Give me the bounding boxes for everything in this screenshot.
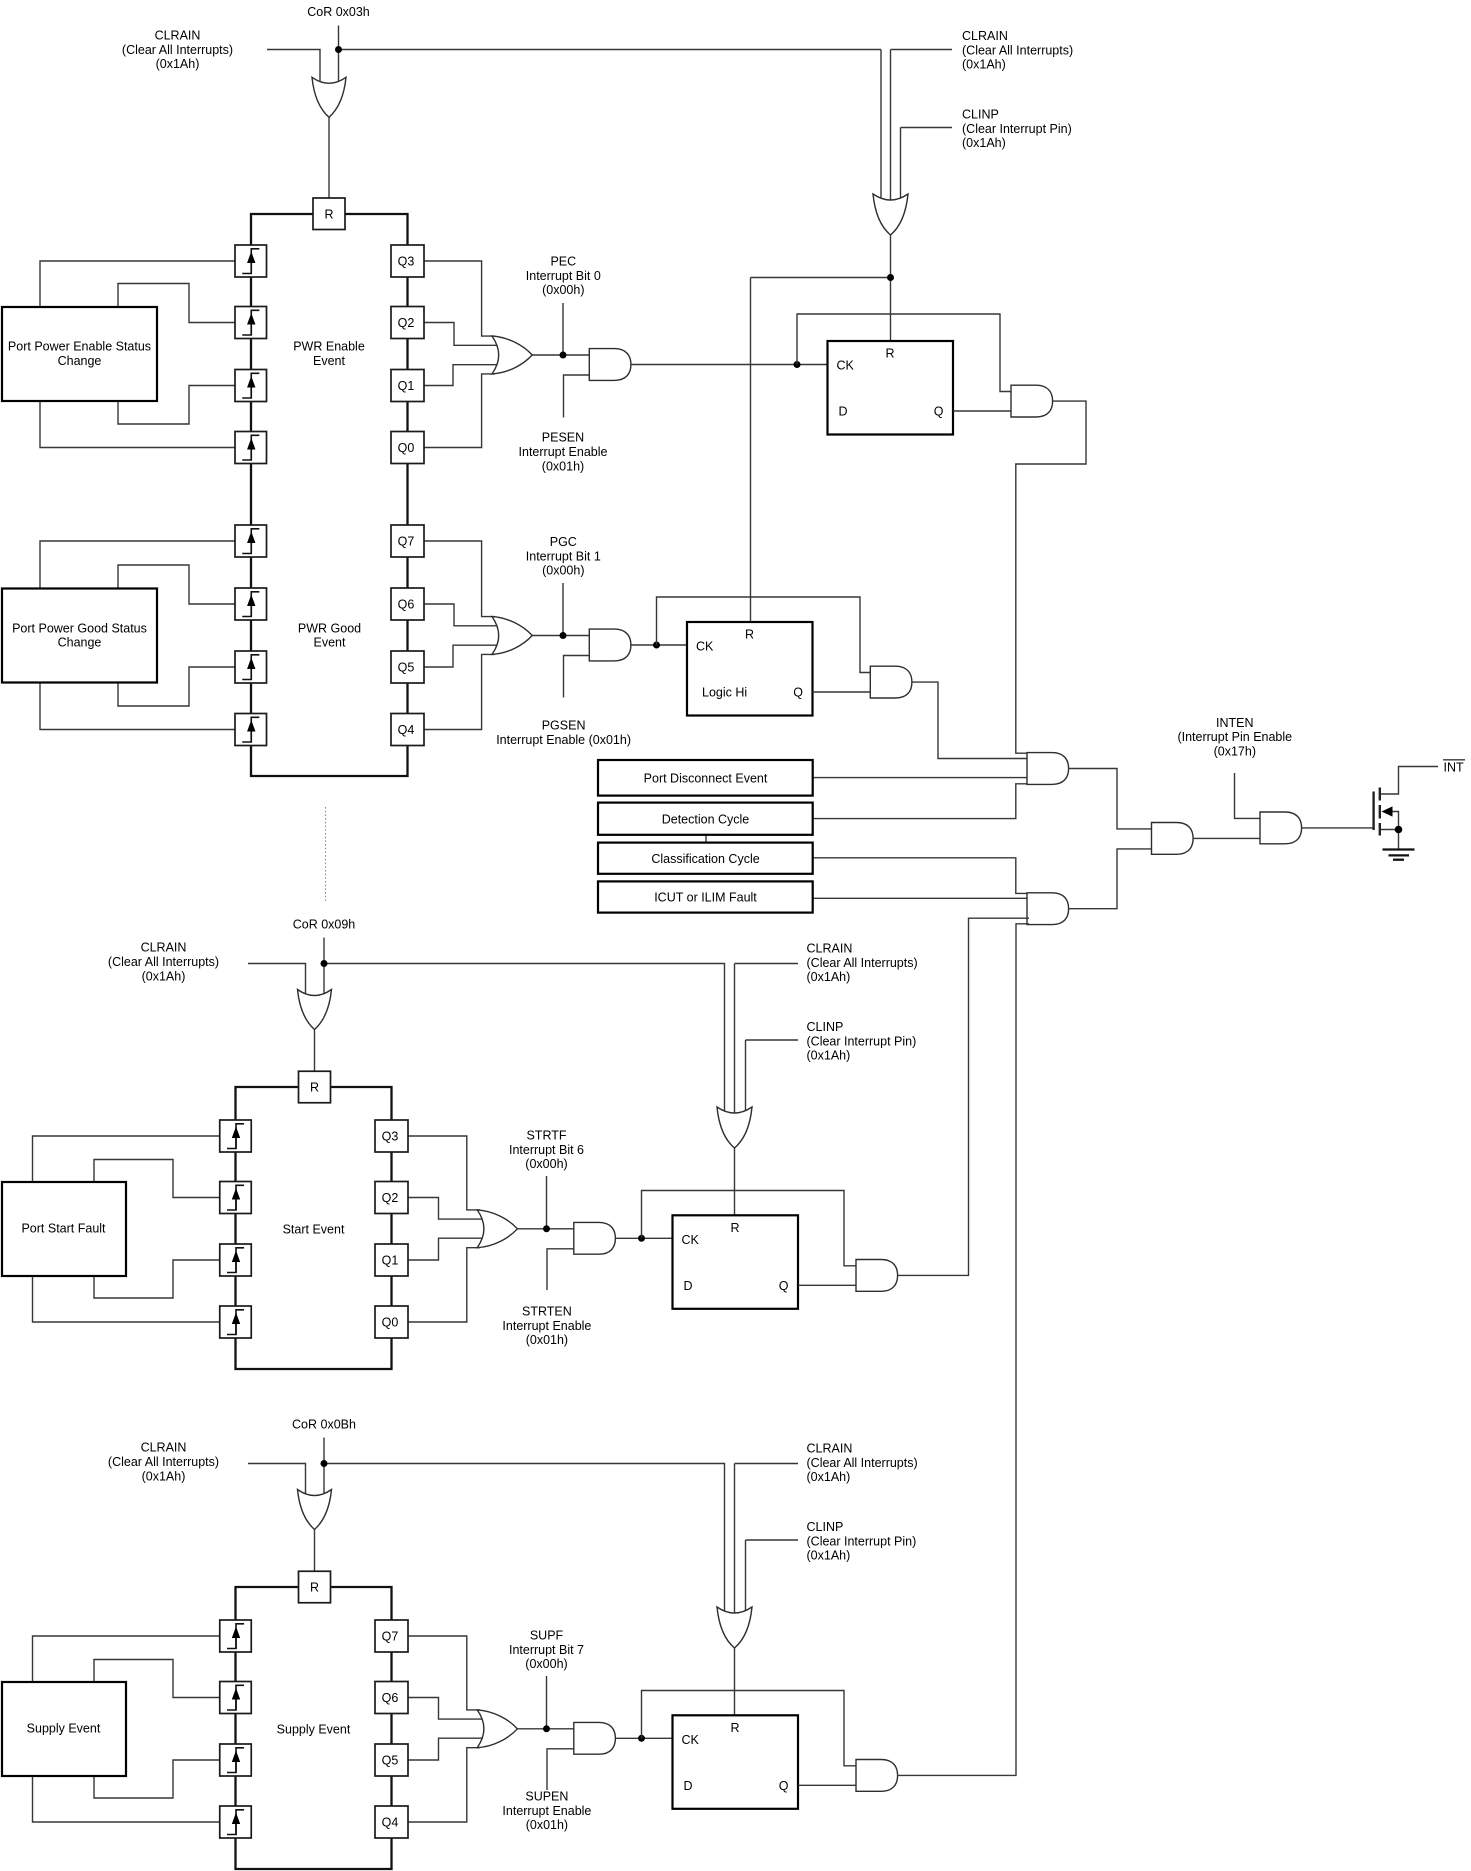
svg-text:CoR 0x0Bh: CoR 0x0Bh — [292, 1418, 356, 1432]
svg-text:Interrupt Enable: Interrupt Enable — [502, 1804, 591, 1818]
svg-text:Q0: Q0 — [398, 441, 415, 455]
svg-text:(Clear Interrupt Pin): (Clear Interrupt Pin) — [962, 122, 1072, 136]
svg-text:Q7: Q7 — [398, 535, 415, 549]
svg-text:PESEN: PESEN — [542, 431, 584, 445]
svg-text:CLRAIN: CLRAIN — [962, 29, 1008, 43]
svg-text:Interrupt Bit 1: Interrupt Bit 1 — [526, 549, 601, 563]
svg-text:PGC: PGC — [550, 535, 577, 549]
svg-text:R: R — [310, 1081, 319, 1095]
svg-text:Q1: Q1 — [382, 1254, 399, 1268]
svg-text:Q2: Q2 — [398, 316, 415, 330]
svg-text:Q2: Q2 — [382, 1191, 399, 1205]
svg-text:CK: CK — [682, 1733, 700, 1747]
svg-text:(0x1Ah): (0x1Ah) — [962, 58, 1006, 72]
svg-text:(0x01h): (0x01h) — [526, 1818, 568, 1832]
svg-text:CK: CK — [837, 359, 855, 373]
svg-text:Event: Event — [313, 354, 345, 368]
svg-text:PWR Enable: PWR Enable — [293, 340, 365, 354]
svg-text:PEC: PEC — [550, 255, 576, 269]
svg-text:Port Power Enable Status: Port Power Enable Status — [8, 340, 151, 354]
svg-text:(0x1Ah): (0x1Ah) — [962, 136, 1006, 150]
svg-text:Supply Event: Supply Event — [27, 1722, 101, 1736]
svg-text:(Interrupt Pin Enable: (Interrupt Pin Enable — [1177, 730, 1292, 744]
svg-text:Interrupt Enable (0x01h): Interrupt Enable (0x01h) — [496, 733, 631, 747]
svg-text:Q3: Q3 — [398, 255, 415, 269]
svg-text:R: R — [310, 1581, 319, 1595]
svg-text:(Clear All Interrupts): (Clear All Interrupts) — [122, 43, 233, 57]
svg-text:D: D — [684, 1779, 693, 1793]
svg-text:Interrupt Enable: Interrupt Enable — [519, 445, 608, 459]
svg-text:CLRAIN: CLRAIN — [155, 29, 201, 43]
svg-text:(0x1Ah): (0x1Ah) — [807, 1549, 851, 1563]
svg-text:CoR 0x09h: CoR 0x09h — [293, 918, 356, 932]
svg-text:(Clear All Interrupts): (Clear All Interrupts) — [962, 43, 1073, 57]
svg-text:CLRAIN: CLRAIN — [141, 1441, 187, 1455]
svg-text:CLINP: CLINP — [807, 1020, 844, 1034]
svg-text:Q6: Q6 — [382, 1691, 399, 1705]
svg-text:(0x00h): (0x00h) — [525, 1157, 567, 1171]
svg-text:(0x01h): (0x01h) — [526, 1333, 568, 1347]
svg-text:(Clear All Interrupts): (Clear All Interrupts) — [807, 956, 918, 970]
svg-text:(Clear All Interrupts): (Clear All Interrupts) — [108, 1455, 219, 1469]
svg-text:CK: CK — [682, 1233, 700, 1247]
svg-text:Q7: Q7 — [382, 1630, 399, 1644]
svg-text:Port Disconnect Event: Port Disconnect Event — [644, 771, 768, 785]
svg-text:SUPEN: SUPEN — [525, 1790, 568, 1804]
svg-text:CLRAIN: CLRAIN — [141, 941, 187, 955]
svg-text:(0x1Ah): (0x1Ah) — [807, 970, 851, 984]
svg-text:STRTEN: STRTEN — [522, 1305, 572, 1319]
svg-text:(Clear Interrupt Pin): (Clear Interrupt Pin) — [807, 1034, 917, 1048]
svg-text:Q3: Q3 — [382, 1130, 399, 1144]
svg-text:INTEN: INTEN — [1216, 716, 1254, 730]
svg-text:(0x1Ah): (0x1Ah) — [142, 1469, 186, 1483]
svg-text:Change: Change — [58, 354, 102, 368]
svg-text:CLINP: CLINP — [962, 108, 999, 122]
svg-text:Port Start Fault: Port Start Fault — [21, 1222, 106, 1236]
svg-text:Q: Q — [934, 405, 944, 419]
svg-text:R: R — [730, 1221, 739, 1235]
svg-text:CLRAIN: CLRAIN — [807, 942, 853, 956]
svg-text:SUPF: SUPF — [530, 1629, 564, 1643]
svg-text:R: R — [885, 347, 894, 361]
svg-text:Classification Cycle: Classification Cycle — [651, 852, 759, 866]
svg-text:CLINP: CLINP — [807, 1520, 844, 1534]
svg-text:(0x00h): (0x00h) — [542, 564, 584, 578]
svg-text:Interrupt Bit 0: Interrupt Bit 0 — [526, 269, 601, 283]
svg-text:Interrupt Bit 6: Interrupt Bit 6 — [509, 1143, 584, 1157]
svg-text:Q: Q — [779, 1279, 789, 1293]
svg-text:Q6: Q6 — [398, 598, 415, 612]
svg-text:Q: Q — [779, 1779, 789, 1793]
svg-text:INT: INT — [1444, 761, 1465, 775]
svg-text:PGSEN: PGSEN — [542, 719, 586, 733]
svg-text:Change: Change — [58, 636, 102, 650]
svg-text:Q1: Q1 — [398, 379, 415, 393]
svg-text:STRTF: STRTF — [526, 1129, 566, 1143]
svg-text:Supply Event: Supply Event — [277, 1722, 351, 1736]
svg-text:(0x1Ah): (0x1Ah) — [807, 1470, 851, 1484]
svg-text:Logic Hi: Logic Hi — [702, 686, 747, 700]
svg-text:Interrupt Enable: Interrupt Enable — [502, 1319, 591, 1333]
svg-text:(0x00h): (0x00h) — [542, 283, 584, 297]
svg-text:(0x1Ah): (0x1Ah) — [142, 969, 186, 983]
svg-text:(Clear All Interrupts): (Clear All Interrupts) — [807, 1456, 918, 1470]
svg-text:CLRAIN: CLRAIN — [807, 1442, 853, 1456]
svg-text:Q4: Q4 — [382, 1816, 399, 1830]
svg-text:Q4: Q4 — [398, 723, 415, 737]
svg-text:(0x01h): (0x01h) — [542, 459, 584, 473]
svg-text:Q0: Q0 — [382, 1316, 399, 1330]
svg-text:Q: Q — [793, 686, 803, 700]
svg-text:Start Event: Start Event — [283, 1222, 345, 1236]
svg-text:(0x00h): (0x00h) — [525, 1657, 567, 1671]
svg-text:CK: CK — [696, 640, 714, 654]
svg-text:CoR 0x03h: CoR 0x03h — [307, 5, 370, 19]
svg-text:Interrupt Bit 7: Interrupt Bit 7 — [509, 1643, 584, 1657]
svg-text:R: R — [730, 1721, 739, 1735]
svg-text:Q5: Q5 — [398, 661, 415, 675]
svg-text:ICUT or ILIM Fault: ICUT or ILIM Fault — [654, 891, 757, 905]
svg-text:(0x17h): (0x17h) — [1214, 745, 1256, 759]
svg-text:Event: Event — [314, 636, 346, 650]
svg-text:PWR Good: PWR Good — [298, 621, 361, 635]
svg-text:D: D — [839, 405, 848, 419]
svg-text:Port Power Good Status: Port Power Good Status — [12, 621, 147, 635]
svg-text:(Clear Interrupt Pin): (Clear Interrupt Pin) — [807, 1534, 917, 1548]
svg-text:R: R — [324, 207, 333, 221]
svg-text:(Clear All Interrupts): (Clear All Interrupts) — [108, 955, 219, 969]
svg-text:(0x1Ah): (0x1Ah) — [807, 1049, 851, 1063]
svg-text:Detection Cycle: Detection Cycle — [662, 812, 750, 826]
svg-text:D: D — [684, 1279, 693, 1293]
svg-text:R: R — [745, 628, 754, 642]
svg-text:Q5: Q5 — [382, 1754, 399, 1768]
svg-text:(0x1Ah): (0x1Ah) — [156, 57, 200, 71]
